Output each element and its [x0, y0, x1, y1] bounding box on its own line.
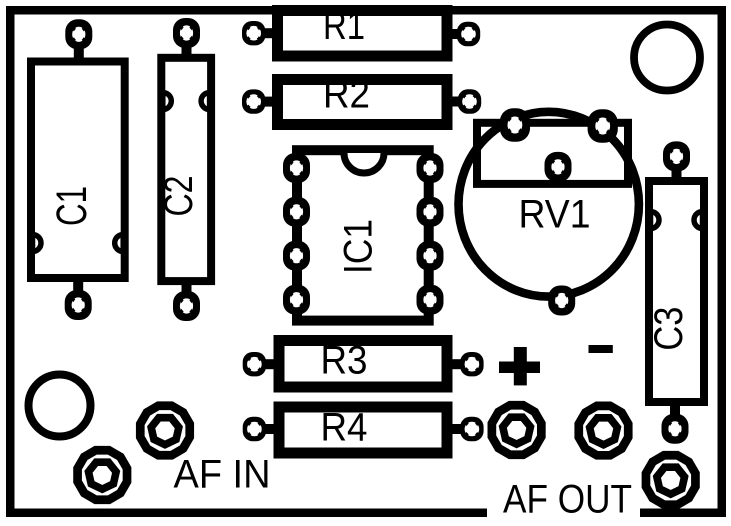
wire R2 left lead [254, 97, 279, 107]
terminal pad AF OUT [646, 455, 695, 504]
pad RV1 bottom [548, 286, 575, 316]
wire R1 right lead [445, 29, 469, 39]
capacitor C2 right notch [201, 93, 210, 110]
pad R2.2 [458, 89, 481, 113]
pad IC1 pin 4 [283, 285, 310, 315]
mounting hole bottom-left [29, 375, 91, 437]
resistor R2 body [278, 80, 448, 125]
wire R3 left lead [254, 359, 279, 369]
terminal pad AF IN 1 [140, 406, 189, 455]
wire C1 top lead [74, 34, 84, 62]
wire R4 right lead [446, 424, 472, 434]
pad IC1 pin 2 [283, 197, 310, 227]
wire R1 left lead [254, 28, 279, 38]
wire R2 right lead [445, 97, 470, 107]
pad RV1.3 [588, 109, 618, 143]
pad IC1 pin 8 [417, 153, 444, 183]
pad IC1 pin 5 [417, 285, 444, 315]
svg-text:R1: R1 [323, 4, 365, 48]
wire C2 bottom lead [182, 281, 192, 306]
capacitor C1 body [31, 62, 125, 279]
pad C3.1 [663, 141, 690, 171]
svg-text:C3: C3 [647, 307, 691, 351]
pad IC1 pin 1 [283, 153, 310, 183]
IC IC1 pin1 notch [344, 153, 384, 173]
pad C2.1 [173, 18, 200, 48]
pad C1.1 [65, 19, 92, 49]
pad R4.2 [460, 417, 483, 441]
svg-text:AF OUT: AF OUT [503, 478, 632, 522]
capacitor C2 left notch [163, 93, 172, 110]
pad R3.2 [460, 352, 483, 376]
pad RV1.2 [545, 152, 572, 182]
capacitor C3 right notch [694, 212, 703, 229]
pad RV1.1 [500, 108, 530, 142]
resistor R3 body [279, 341, 447, 388]
svg-text:IC1: IC1 [337, 219, 381, 274]
pad R2.1 [242, 89, 265, 113]
capacitor C1 left notch [33, 235, 42, 252]
pad R1.2 [457, 22, 480, 46]
potentiometer RV1 body circle [459, 112, 639, 297]
plus symbol [499, 362, 540, 374]
pad IC1 pin 7 [417, 197, 444, 227]
wire R4 left lead [254, 424, 279, 434]
wire C3 bottom lead [670, 402, 680, 429]
pad IC1 pin 6 [417, 241, 444, 271]
terminal pad minus [579, 406, 628, 455]
capacitor C1 right notch [115, 235, 124, 252]
capacitor C3 body [649, 181, 704, 402]
pad C2.2 [173, 291, 200, 321]
minus symbol [589, 345, 613, 353]
svg-text:RV1: RV1 [519, 193, 591, 237]
capacitor C2 body [161, 58, 211, 281]
pad C3.2 [662, 414, 689, 444]
svg-text:R4: R4 [321, 406, 368, 450]
terminal pad plus [492, 405, 541, 454]
pad IC1 pin 3 [283, 241, 310, 271]
mounting hole top-right [634, 25, 700, 91]
terminal pad AF IN 2 [78, 450, 127, 499]
capacitor C3 left notch [651, 212, 660, 229]
wire C3 top lead [672, 156, 682, 181]
pad R4.1 [243, 417, 266, 441]
IC IC1 body [297, 150, 429, 320]
wire C2 top lead [182, 33, 192, 58]
pad R3.1 [243, 352, 266, 376]
svg-text:R2: R2 [323, 72, 370, 116]
pad R1.1 [242, 21, 265, 45]
potentiometer RV1 body rectangle [477, 123, 628, 184]
wire C1 bottom lead [73, 278, 83, 306]
svg-text:C2: C2 [157, 176, 201, 217]
svg-text:C1: C1 [48, 186, 96, 226]
resistor R4 body [279, 407, 447, 453]
resistor R1 body [278, 11, 448, 57]
wire R3 right lead [446, 359, 472, 369]
svg-text:R3: R3 [321, 339, 368, 383]
pad C1.2 [65, 290, 92, 320]
svg-text:AF IN: AF IN [174, 453, 271, 497]
